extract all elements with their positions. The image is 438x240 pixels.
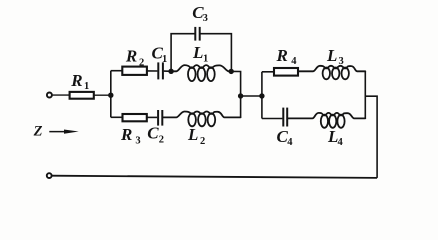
label C3 (192, 3, 208, 24)
inductor L1 (171, 65, 231, 81)
wire (94, 94, 111, 96)
inductor L3 (298, 66, 365, 80)
label L2 (187, 125, 205, 147)
svg-text:L: L (187, 125, 198, 144)
resistor R1 (70, 92, 94, 99)
wire (261, 72, 263, 119)
svg-text:L: L (192, 43, 203, 62)
capacitor C3 (195, 27, 199, 41)
wire (147, 70, 158, 72)
wire (240, 96, 242, 117)
svg-text:1: 1 (203, 54, 208, 65)
resistor R2 (122, 67, 147, 75)
capacitor C1 (158, 62, 163, 79)
svg-text:1: 1 (84, 81, 89, 92)
terminal top-left input (47, 93, 52, 98)
label C2 (147, 124, 164, 146)
label L1 (192, 43, 208, 65)
label C1 (152, 44, 168, 66)
wire (231, 71, 240, 96)
capacitor C2 (158, 110, 162, 126)
wire bottom rail (52, 176, 377, 178)
label L4 (327, 127, 344, 148)
svg-text:3: 3 (203, 13, 208, 24)
node B (C1-L1 junction) (168, 69, 173, 74)
wire (110, 71, 112, 118)
svg-text:1: 1 (162, 54, 167, 65)
svg-text:L: L (326, 46, 337, 65)
label R2 (125, 47, 144, 69)
svg-text:Z: Z (33, 123, 43, 139)
wire (52, 94, 70, 96)
resistor R3 (123, 114, 147, 121)
inductor L2 (163, 112, 240, 127)
wire (364, 71, 366, 118)
label C4 (277, 127, 294, 148)
node C (L1-C3 junction) (229, 69, 234, 74)
wire C3 branch left riser (171, 34, 195, 72)
label L3 (326, 46, 344, 67)
svg-text:2: 2 (200, 136, 205, 147)
node A (after R1) (108, 93, 113, 98)
terminal bottom-left input (47, 173, 52, 178)
wire (147, 116, 157, 118)
wire (164, 70, 171, 72)
svg-text:R: R (120, 125, 132, 144)
svg-text:4: 4 (287, 137, 293, 148)
arrow impedance direction (49, 130, 78, 134)
node D (group1 output) (238, 93, 243, 98)
wire (241, 95, 262, 97)
svg-text:4: 4 (338, 137, 344, 148)
inductor L4 (288, 113, 365, 128)
capacitor C4 (283, 108, 287, 127)
wire C3 branch right riser (200, 34, 232, 72)
node E (group2 input) (259, 93, 264, 98)
wire output tap to bottom rail (365, 96, 377, 178)
svg-text:2: 2 (159, 134, 164, 145)
svg-text:R: R (276, 46, 288, 65)
label R1 (70, 71, 89, 92)
wire (262, 71, 274, 73)
svg-text:R: R (70, 71, 82, 90)
wire (262, 118, 283, 120)
wire (111, 116, 123, 118)
svg-text:3: 3 (135, 136, 140, 147)
svg-text:R: R (125, 47, 137, 66)
label R3 (120, 125, 141, 147)
wire (111, 70, 123, 72)
svg-text:2: 2 (139, 57, 144, 68)
svg-text:4: 4 (291, 56, 297, 67)
resistor R4 (274, 68, 298, 76)
label R4 (276, 46, 298, 67)
svg-text:3: 3 (339, 56, 344, 67)
svg-text:C: C (147, 124, 159, 143)
